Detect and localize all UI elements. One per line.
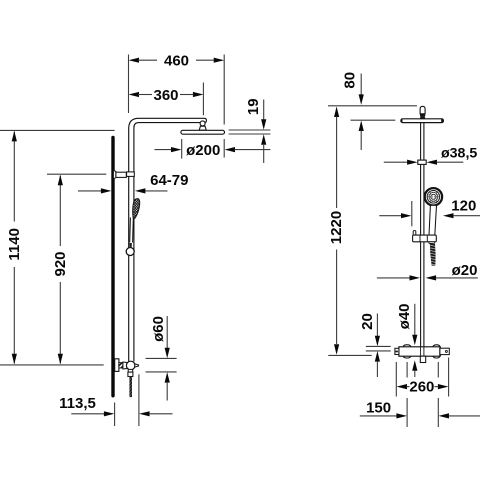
svg-text:120: 120 [451, 198, 476, 215]
hand shower (front view) [425, 188, 442, 235]
pipe seam inside body [420, 347, 422, 356]
svg-text:150: 150 [366, 399, 391, 416]
dimension 64-79 (wall to rail) [78, 172, 188, 193]
thermostatic mixer (front view) [395, 345, 449, 363]
handle end below holder [429, 242, 435, 244]
slider ball (side view) [126, 248, 134, 256]
svg-text:920: 920 [52, 251, 69, 276]
svg-text:64-79: 64-79 [150, 172, 188, 189]
dimension 460 [129, 53, 225, 125]
cylinder [123, 362, 128, 369]
svg-text:260: 260 [409, 379, 434, 396]
dimension 920 (vertical) + its reference line [47, 174, 106, 364]
right cartridge knob [432, 345, 440, 358]
node: top reference line (head top level) [0, 129, 115, 131]
svg-text:360: 360 [153, 87, 178, 104]
rail slider stop [418, 160, 426, 164]
hose stub (front view, dark hatched) [430, 243, 436, 265]
dimension 80 [342, 72, 396, 150]
dimension ø200 [155, 139, 271, 159]
svg-text:ø20: ø20 [452, 262, 478, 279]
hatched connector [119, 363, 123, 368]
holder bracket (front view) [413, 231, 437, 242]
dimension 1140 (vertical) [6, 131, 23, 364]
handle [429, 205, 437, 235]
diverter valve assembly (side view bottom) [115, 359, 139, 397]
svg-text:ø200: ø200 [186, 142, 220, 159]
dimension 19 (head thickness) [229, 98, 271, 163]
right end cap [440, 348, 449, 354]
dimension 113,5 [59, 374, 172, 426]
wall bracket of rail [113, 170, 134, 179]
dimension ø40 (right view) [396, 303, 418, 377]
below-circle neck [128, 369, 133, 372]
dimension 360 [129, 83, 204, 116]
ball joint at head [200, 121, 205, 126]
hand shower hose upper (side view, converging lines) [129, 218, 132, 243]
dimension 260 [396, 358, 448, 397]
shower rail pipe (front view, double line) [421, 123, 424, 347]
svg-text:1220: 1220 [328, 211, 345, 244]
dimension 1220 (vertical) [328, 107, 345, 355]
left cartridge knob [403, 345, 412, 358]
dimension ø60 [146, 316, 177, 401]
wall (thick bar) [111, 138, 114, 396]
dimension 120 [379, 198, 480, 227]
node: bottom reference line (mixer level, left view) [0, 364, 104, 366]
dimension 150 [360, 362, 480, 427]
svg-text:20: 20 [359, 313, 376, 330]
dimension ø38,5 [384, 146, 478, 165]
pipe top finial [420, 106, 425, 119]
left end cap [395, 348, 399, 354]
shower rail pipe with top bend (side view, double line) [129, 118, 207, 361]
outlet hose (hatched) [129, 377, 132, 398]
node: top reference line (pipe top level) [328, 105, 417, 107]
svg-text:460: 460 [164, 53, 189, 70]
svg-text:1140: 1140 [6, 228, 23, 261]
dimension ø20 [377, 262, 478, 281]
hose nut (dark) [129, 243, 132, 247]
dimension 20 (right view) [359, 313, 391, 377]
svg-text:ø40: ø40 [396, 303, 413, 329]
node: bottom reference line (mixer level, right view) [328, 354, 371, 356]
svg-text:80: 80 [342, 72, 359, 89]
wall mount plate [115, 359, 119, 372]
svg-text:113,5: 113,5 [59, 395, 96, 412]
valve knob circle [126, 361, 135, 370]
bottom outlet [420, 356, 425, 362]
hand shower handle (side view, hatched) [133, 199, 140, 219]
svg-text:19: 19 [245, 98, 262, 115]
svg-text:ø60: ø60 [150, 316, 167, 342]
cone fitting under ball [199, 126, 206, 130]
shower head (front view bar) [401, 119, 444, 123]
side knob pointer [135, 364, 139, 367]
hose nut under valve [128, 372, 133, 376]
shower head (side view bar) [181, 130, 225, 134]
svg-text:ø38,5: ø38,5 [441, 146, 477, 162]
mixer body [399, 347, 440, 356]
